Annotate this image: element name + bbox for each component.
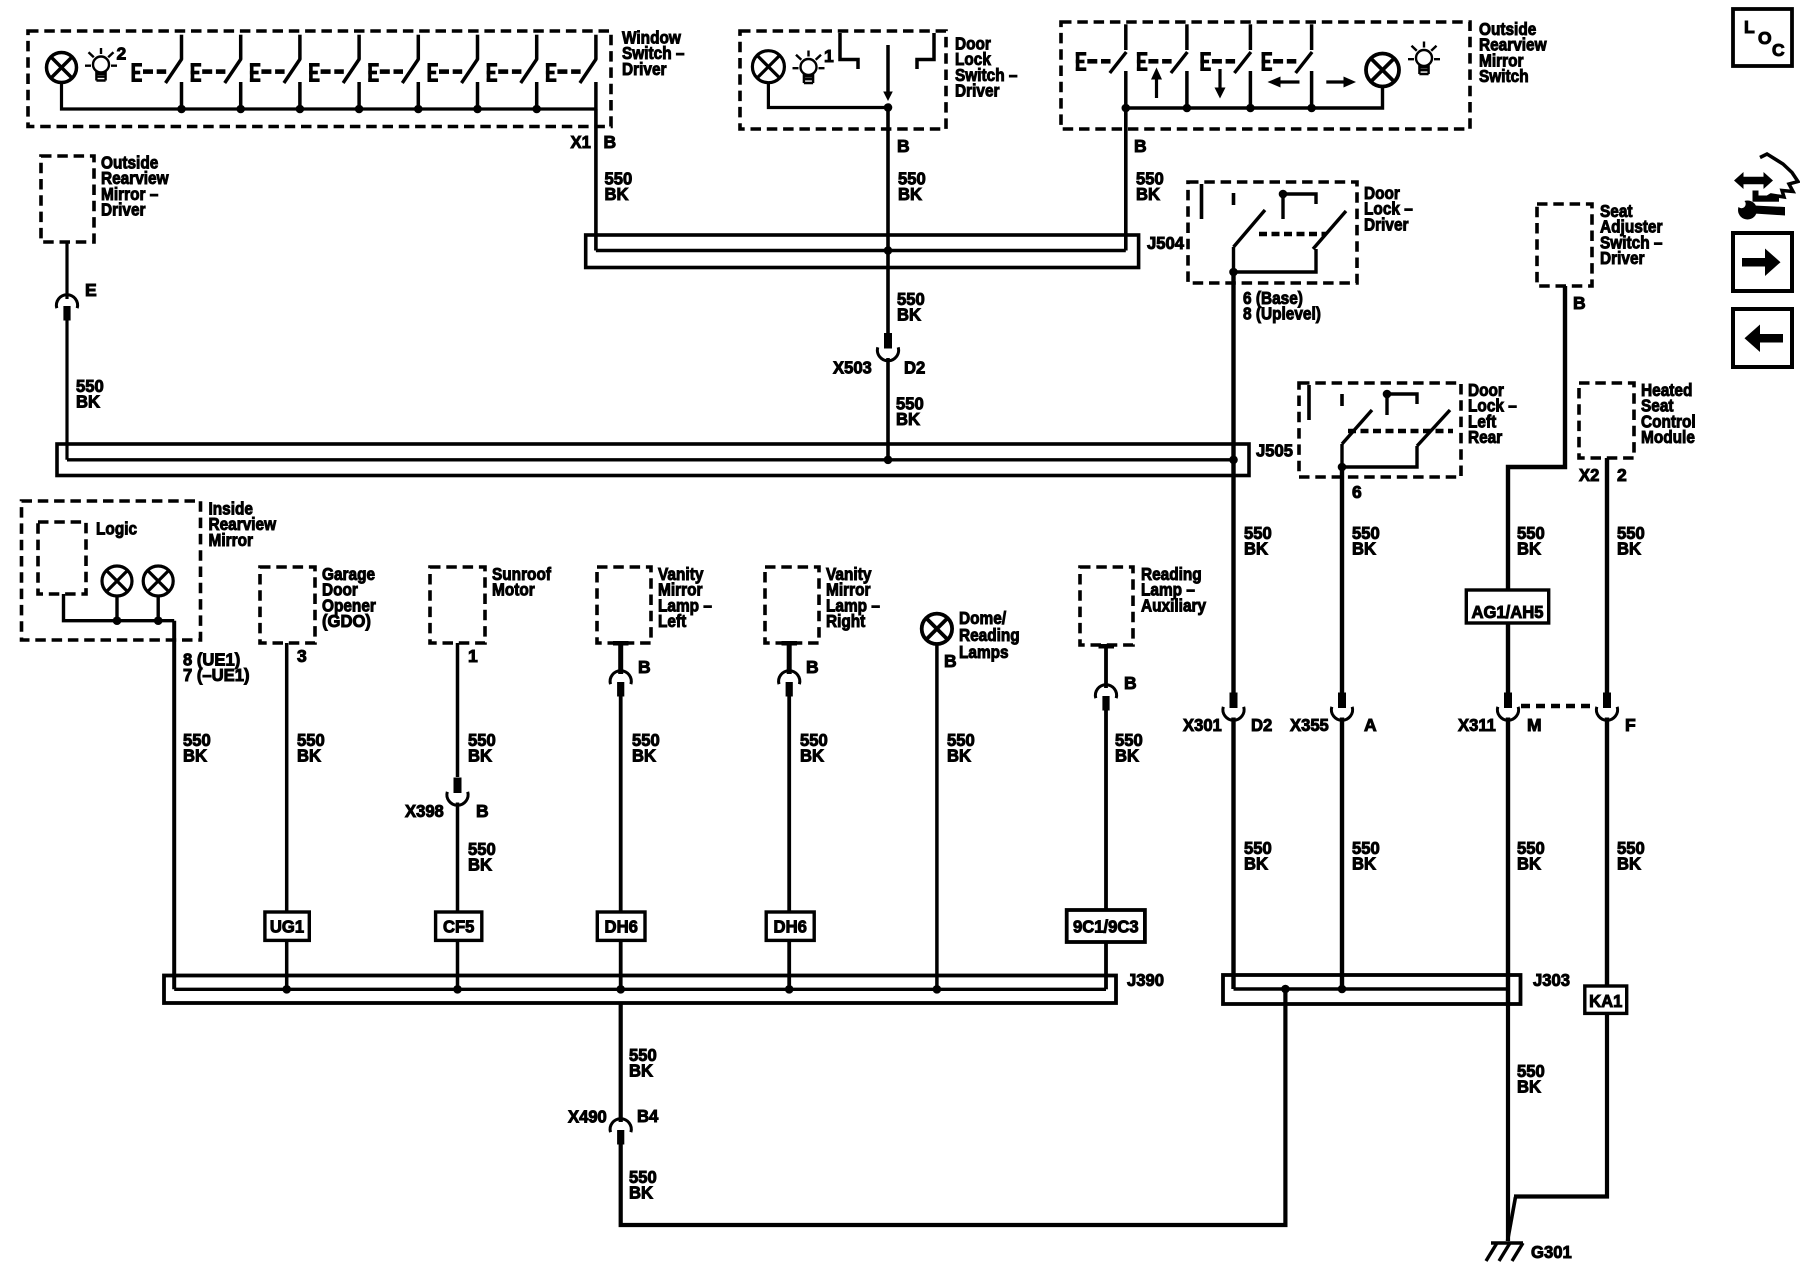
- svg-text:BK: BK: [76, 392, 100, 412]
- value 550 BK - door lock switch ground wire: [898, 169, 926, 205]
- garage door opener label: [322, 564, 376, 631]
- wire 550 BK - X311 F to KA1: [1605, 718, 1609, 987]
- junction block J303: [1223, 975, 1521, 1004]
- svg-text:B: B: [944, 651, 957, 671]
- svg-text:BK: BK: [897, 305, 921, 325]
- svg-text:Logic: Logic: [96, 519, 137, 539]
- vanity mirror lamp - left label: [658, 564, 712, 631]
- internal ground path - door lock driver: [1229, 247, 1316, 276]
- svg-text:G301: G301: [1531, 1242, 1572, 1262]
- svg-text:DH6: DH6: [774, 917, 808, 937]
- contact hook right - door lock switch: [917, 33, 934, 69]
- sunroof motor (component box): [430, 567, 485, 643]
- logic module box - inside rearview mirror: [38, 522, 86, 594]
- value 550 BK - sunroof wire above X398: [468, 730, 496, 766]
- value 550 BK - below X490: [629, 1167, 657, 1203]
- svg-text:3: 3: [297, 646, 307, 666]
- svg-text:B4: B4: [637, 1106, 659, 1126]
- junction block J390: [164, 976, 1116, 1004]
- wire 550 BK - dome lamps to J390: [935, 644, 939, 989]
- wire 550 BK - GDO pin 3 to UG1: [285, 643, 289, 912]
- wire 550 BK - X301 to J303: [1231, 718, 1235, 990]
- door lock - driver (component box): [1188, 182, 1357, 283]
- junction dot - X355 wire at J303: [1338, 985, 1347, 994]
- value 550 BK - heated seat wire: [1617, 523, 1645, 559]
- pin X1 B - window switch: [571, 132, 617, 152]
- wire - ground diagonal: [1508, 1197, 1516, 1241]
- svg-text:X301: X301: [1183, 715, 1222, 735]
- svg-text:X1: X1: [571, 132, 592, 152]
- wire - 9C1/9C3 to J390: [1104, 942, 1108, 989]
- lamp 2 - inside rearview mirror: [143, 566, 173, 596]
- value 550 BK - ground wire: [1517, 1061, 1545, 1097]
- svg-text:X355: X355: [1290, 715, 1329, 735]
- svg-text:Lamps: Lamps: [959, 642, 1009, 662]
- svg-text:B: B: [1124, 673, 1137, 693]
- reading lamp - auxiliary label: [1141, 564, 1206, 615]
- svg-text:BK: BK: [1352, 854, 1376, 874]
- value 550 BK - below X301: [1244, 838, 1272, 874]
- wire - DH6 right to J390: [787, 940, 791, 989]
- svg-text:J303: J303: [1533, 970, 1570, 990]
- svg-text:X398: X398: [405, 801, 444, 821]
- wire 550 BK - heated seat module to X311 F: [1605, 458, 1609, 693]
- svg-text:KA1: KA1: [1589, 991, 1623, 1011]
- svg-text:Motor: Motor: [492, 580, 535, 600]
- svg-text:F: F: [1625, 715, 1636, 735]
- wire - DH6 left to J390: [619, 940, 623, 989]
- wire - UG1 to J390: [285, 940, 289, 989]
- harness code DH6 right: [766, 912, 814, 940]
- svg-text:CF5: CF5: [443, 917, 475, 937]
- wire - CF5 to J390: [456, 940, 460, 989]
- svg-text:B: B: [1573, 293, 1586, 313]
- svg-text:2: 2: [1617, 465, 1627, 485]
- linkage dashed - door lock left rear: [1348, 429, 1453, 434]
- wire 550 BK - X490 to J303: [621, 989, 1286, 1225]
- heated seat control module label: [1641, 380, 1696, 447]
- internal contact bar - door lock left rear: [1307, 385, 1311, 420]
- svg-text:Module: Module: [1641, 427, 1695, 447]
- value 550 BK - below X311 M: [1517, 838, 1545, 874]
- harness code KA1: [1585, 986, 1627, 1013]
- svg-text:B: B: [897, 136, 910, 156]
- page locator LOC box: [1733, 9, 1792, 66]
- outside rearview mirror switch (component box): [1061, 22, 1470, 129]
- wire 550 BK - door lock driver J505 to X301: [1231, 460, 1235, 693]
- junction dot - vanity left wire at J390: [616, 985, 625, 994]
- ground G301 symbol: [1486, 1243, 1523, 1261]
- inline connector - reading lamp auxiliary pin B: [1095, 685, 1116, 711]
- svg-text:BK: BK: [468, 855, 492, 875]
- wire 550 BK - X311 M to J303: [1506, 718, 1510, 1007]
- svg-text:Auxiliary: Auxiliary: [1141, 595, 1206, 615]
- value 550 BK - inside rearview mirror wire: [183, 730, 211, 766]
- switch contact 4 - mirror switch: [1262, 24, 1316, 112]
- contact hook left - door lock switch: [840, 33, 858, 69]
- svg-text:Right: Right: [826, 611, 865, 631]
- bulb icon - mirror switch: [1408, 42, 1440, 75]
- svg-text:M: M: [1527, 715, 1542, 735]
- junction block J505: [57, 444, 1249, 476]
- vanity mirror lamp - left (component box): [597, 567, 651, 643]
- value 550 BK - seat adjuster wire: [1517, 523, 1545, 559]
- arrow left - mirror adjust: [1268, 77, 1300, 88]
- window switch - driver label: [622, 27, 685, 78]
- svg-text:DH6: DH6: [605, 917, 639, 937]
- svg-text:BK: BK: [1617, 854, 1641, 874]
- inline connector X311 pin F: [1596, 693, 1617, 721]
- internal ground path - door lock left rear: [1338, 444, 1417, 471]
- inline connector - vanity right pin B: [779, 671, 800, 697]
- lamp 1 - inside rearview mirror: [102, 566, 132, 596]
- inline connector X301 pin D2: [1223, 693, 1244, 721]
- outside rearview mirror - driver (component box): [41, 156, 94, 242]
- wire 550 BK - sunroof pin 1 to X398: [456, 643, 460, 777]
- navigation arrow previous (left): [1733, 309, 1792, 367]
- wire 550 BK - vanity left to DH6: [619, 696, 623, 913]
- wire - mirror pin E: [65, 242, 68, 299]
- value 550 BK - below X355: [1352, 838, 1380, 874]
- svg-text:8 (Uplevel): 8 (Uplevel): [1243, 304, 1321, 324]
- switch blade left - door lock left rear: [1342, 410, 1372, 444]
- bulb icon 1 - door lock switch: [793, 46, 835, 83]
- svg-text:B: B: [604, 132, 617, 152]
- pin 6 (Base) 8 (Uplevel) - door lock driver: [1243, 288, 1321, 324]
- junction dot - vanity right wire at J390: [785, 985, 794, 994]
- inline connector X503 pin D2: [877, 333, 898, 361]
- switch contact 8 - window switch: [546, 35, 597, 109]
- svg-text:X311: X311: [1458, 715, 1496, 735]
- harness code 9C1/9C3: [1067, 910, 1145, 942]
- harness code DH6 left: [597, 912, 645, 940]
- inline connector - vanity left pin B: [610, 671, 631, 697]
- svg-text:BK: BK: [947, 746, 971, 766]
- service icon - adjustable component with wrench: [1734, 154, 1798, 220]
- inside rearview mirror label: [209, 499, 277, 550]
- inline connector X355 pin A: [1331, 693, 1352, 721]
- junction dot - door lock driver wire at J505: [1229, 456, 1238, 465]
- junction dot - X490 wire at J303: [1281, 985, 1290, 994]
- value 550 BK - dome lamps wire: [947, 730, 975, 766]
- value 550 BK - vanity left wire: [632, 730, 660, 766]
- arrow right - mirror adjust: [1326, 77, 1356, 88]
- wire 550 BK - mirror E to J505: [65, 320, 68, 460]
- switch contact 7 - window switch: [487, 35, 541, 114]
- wire - AG1/AH5 to X311 M: [1506, 623, 1510, 693]
- switch contact 2 - window switch: [191, 35, 245, 114]
- internal common node - door lock left rear: [1383, 390, 1417, 415]
- svg-text:BK: BK: [183, 746, 207, 766]
- svg-text:7 (–UE1): 7 (–UE1): [183, 665, 250, 685]
- pin B terminal - vanity left: [613, 641, 629, 674]
- svg-text:O: O: [1758, 28, 1772, 48]
- svg-text:2: 2: [117, 44, 127, 64]
- svg-text:Driver: Driver: [1600, 248, 1645, 268]
- value 550 BK - sunroof wire below X398: [468, 839, 496, 875]
- wire 550 BK - J504 to X503: [886, 251, 890, 334]
- svg-text:Driver: Driver: [955, 81, 1000, 101]
- harness code CF5: [436, 912, 482, 940]
- svg-text:BK: BK: [1517, 539, 1541, 559]
- dome/reading lamps label: [959, 608, 1020, 662]
- wire 550 BK - X355 to J303: [1340, 718, 1344, 990]
- wire - inside rearview mirror internal: [64, 594, 175, 625]
- switch contact 2 - mirror switch: [1137, 24, 1191, 112]
- switch contact 1 - window switch: [132, 35, 186, 114]
- value 550 BK - below X311 F: [1617, 838, 1645, 874]
- switch blade right - door lock driver: [1313, 211, 1346, 249]
- svg-text:BK: BK: [468, 746, 492, 766]
- junction block J504: [586, 235, 1139, 268]
- svg-text:B: B: [476, 801, 489, 821]
- pin 8 (UE1) 7 (-UE1) - inside rearview mirror: [183, 650, 250, 686]
- value 550 BK - GDO wire: [297, 730, 325, 766]
- value 550 BK - door lock driver wire: [1244, 523, 1272, 559]
- inside rearview mirror (component box): [22, 501, 201, 640]
- switch contact 3 - mirror switch: [1200, 24, 1254, 112]
- internal contact bar - door lock driver: [1200, 184, 1204, 219]
- svg-text:BK: BK: [629, 1061, 653, 1081]
- wire 550 BK - X398 to CF5: [456, 803, 460, 913]
- window switch - driver (component box): [28, 31, 611, 127]
- svg-text:BK: BK: [800, 746, 824, 766]
- svg-text:B: B: [1134, 136, 1147, 156]
- svg-text:BK: BK: [1517, 854, 1541, 874]
- junction dot - X503 wire at J505: [884, 456, 893, 465]
- reading lamp - auxiliary (component box): [1080, 567, 1133, 645]
- internal contact stub - door lock driver: [1232, 193, 1236, 205]
- lamp - window switch illumination: [47, 53, 77, 83]
- svg-text:B: B: [638, 657, 651, 677]
- svg-text:Driver: Driver: [622, 59, 667, 79]
- door lock switch - driver label: [955, 34, 1018, 101]
- svg-text:BK: BK: [1244, 854, 1268, 874]
- lamp - dome/reading lamps: [922, 614, 952, 644]
- wire - mirror switch internal bus: [1126, 88, 1383, 109]
- sunroof motor label: [492, 564, 551, 600]
- svg-text:D2: D2: [904, 358, 926, 378]
- svg-text:1: 1: [824, 46, 834, 66]
- svg-text:BK: BK: [1136, 184, 1160, 204]
- svg-text:X490: X490: [568, 1107, 607, 1127]
- wire - door lock left rear pin 6 to X355: [1340, 467, 1344, 693]
- arrow down - mirror adjust: [1215, 69, 1226, 99]
- navigation arrow next (right): [1733, 233, 1792, 291]
- svg-text:BK: BK: [297, 746, 321, 766]
- linkage dashed - door lock driver: [1259, 232, 1326, 237]
- wire 550 BK - door lock switch pin B to J504: [886, 108, 890, 251]
- pin B terminal - reading lamp auxiliary: [1099, 644, 1115, 688]
- value 550 BK - reading lamp aux wire: [1115, 730, 1143, 766]
- value 550 BK - above X503: [897, 289, 925, 325]
- vanity mirror lamp - right label: [826, 564, 880, 631]
- svg-text:C: C: [1772, 40, 1785, 60]
- wire 550 BK - J303 to ground G301: [1506, 1004, 1510, 1241]
- heated seat control module (component box): [1579, 383, 1634, 458]
- svg-text:1: 1: [468, 646, 478, 666]
- svg-text:J390: J390: [1127, 970, 1164, 990]
- svg-text:UG1: UG1: [270, 917, 304, 937]
- wire - window switch internal bus: [62, 83, 596, 110]
- svg-text:B: B: [806, 657, 819, 677]
- switch blade right - door lock left rear: [1417, 410, 1450, 446]
- door lock - driver label: [1364, 183, 1413, 234]
- pin X2 2 - heated seat control module: [1579, 465, 1627, 485]
- internal common node - door lock driver: [1279, 190, 1316, 219]
- wire 550 BK - J390 to X490: [619, 1003, 623, 1122]
- svg-text:A: A: [1364, 715, 1377, 735]
- svg-text:BK: BK: [632, 746, 656, 766]
- svg-text:L: L: [1744, 17, 1755, 37]
- internal contact stub - door lock left rear: [1340, 394, 1344, 406]
- lamp - door lock switch illumination: [752, 51, 784, 83]
- svg-text:Driver: Driver: [1364, 214, 1409, 234]
- value 550 BK - above X490: [629, 1045, 657, 1081]
- wire 550 BK - reading lamp aux to 9C1/9C3: [1104, 710, 1108, 911]
- inline connector X311 pin M: [1497, 693, 1518, 721]
- wire 550 BK - mirror switch pin B to J504: [1124, 108, 1128, 251]
- switch contact 6 - window switch: [428, 35, 482, 114]
- svg-text:BK: BK: [1352, 539, 1376, 559]
- wire 550 BK - inside rearview mirror pins 8/7 to J390: [172, 621, 176, 990]
- wire - door lock driver pin to J505: [1231, 272, 1235, 460]
- outside rearview mirror - driver label: [101, 153, 169, 220]
- junction dot - door lock switch wire at J504: [884, 246, 893, 255]
- vanity mirror lamp - right (component box): [765, 567, 819, 643]
- connector tie dashed - X311: [1521, 704, 1594, 708]
- pin B terminal - vanity right: [782, 641, 798, 674]
- switch common with arrow - door lock switch: [883, 45, 893, 112]
- svg-text:(GDO): (GDO): [322, 611, 371, 631]
- switch contact 5 - window switch: [368, 35, 422, 114]
- svg-text:J505: J505: [1256, 441, 1293, 461]
- wire 550 BK - vanity right to DH6: [787, 696, 791, 913]
- switch contact 3 - window switch: [250, 35, 304, 114]
- value 550 BK - below X503: [896, 394, 924, 430]
- wire - door lock switch lamp to common: [768, 83, 888, 108]
- svg-text:BK: BK: [1244, 539, 1268, 559]
- svg-text:Rear: Rear: [1468, 427, 1502, 447]
- arrow up - mirror adjust: [1151, 68, 1162, 99]
- value 550 BK - mirror switch ground wire: [1136, 169, 1164, 205]
- svg-text:Driver: Driver: [101, 200, 146, 220]
- door lock switch - driver (component box): [740, 31, 946, 129]
- door lock - left rear (component box): [1299, 383, 1461, 477]
- svg-text:9C1/9C3: 9C1/9C3: [1073, 917, 1139, 937]
- svg-text:BK: BK: [605, 184, 629, 204]
- bulb icon 2 - window switch: [85, 44, 127, 81]
- svg-text:BK: BK: [1617, 539, 1641, 559]
- inline connector X398 pin B: [447, 778, 468, 806]
- svg-text:Switch: Switch: [1479, 66, 1529, 86]
- svg-text:J504: J504: [1147, 233, 1184, 253]
- svg-text:E: E: [85, 280, 97, 300]
- wire - KA1 to ground run: [1514, 1013, 1607, 1196]
- value 550 BK - window switch ground wire: [605, 169, 633, 205]
- svg-text:BK: BK: [629, 1183, 653, 1203]
- svg-text:AG1/AH5: AG1/AH5: [1471, 602, 1543, 622]
- svg-text:BK: BK: [1517, 1077, 1541, 1097]
- svg-text:BK: BK: [1115, 746, 1139, 766]
- svg-text:Left: Left: [658, 611, 686, 631]
- seat adjuster switch - driver label: [1600, 201, 1663, 268]
- garage door opener (component box): [260, 567, 315, 643]
- svg-text:D2: D2: [1251, 715, 1273, 735]
- wire 550 BK - window switch pin B to J504: [594, 109, 598, 251]
- svg-text:BK: BK: [896, 409, 920, 429]
- harness code AG1/AH5: [1466, 590, 1548, 623]
- seat adjuster switch - driver (component box): [1537, 204, 1592, 286]
- junction dot - dome lamps wire at J390: [933, 985, 942, 994]
- value 550 BK - mirror driver ground wire: [76, 376, 104, 412]
- switch blade left - door lock driver: [1234, 210, 1266, 247]
- junction dot - sunroof wire at J390: [453, 985, 462, 994]
- junction dot - GDO wire at J390: [282, 985, 291, 994]
- harness code UG1: [265, 912, 309, 940]
- inline connector - mirror pin E: [56, 295, 77, 321]
- switch contact 4 - window switch: [309, 35, 363, 114]
- inline connector X490 pin B4: [610, 1119, 631, 1145]
- door lock - left rear label: [1468, 380, 1517, 447]
- switch contact 1 - mirror switch: [1076, 24, 1130, 112]
- value 550 BK - vanity right wire: [800, 730, 828, 766]
- outside rearview mirror switch label: [1479, 19, 1547, 86]
- svg-text:X2: X2: [1579, 465, 1600, 485]
- wire 550 BK - seat adjuster to AG1/AH5: [1508, 286, 1565, 590]
- svg-text:6: 6: [1352, 482, 1362, 502]
- value 550 BK - door lock left rear wire: [1352, 523, 1380, 559]
- svg-text:BK: BK: [898, 184, 922, 204]
- svg-text:X503: X503: [833, 358, 872, 378]
- wire 550 BK - X503 to J505: [886, 358, 890, 460]
- svg-text:Mirror: Mirror: [209, 530, 254, 550]
- lamp - mirror switch illumination: [1366, 54, 1399, 87]
